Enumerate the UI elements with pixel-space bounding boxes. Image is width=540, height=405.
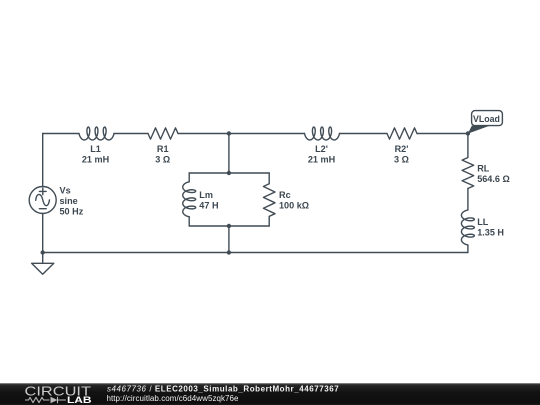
svg-text:564.6 Ω: 564.6 Ω bbox=[477, 174, 510, 184]
wire box top rail bbox=[189, 172, 269, 174]
wire top rail to source + bbox=[42, 134, 44, 187]
resistor R2' bbox=[387, 128, 417, 139]
svg-text:1.35 H: 1.35 H bbox=[477, 228, 504, 238]
label L1 name bbox=[90, 144, 101, 154]
label Lm name bbox=[199, 190, 213, 200]
logo CIRCUIT text bbox=[25, 383, 92, 398]
wire VLoad node to RL bbox=[467, 134, 469, 158]
wire node A down to box bbox=[228, 134, 230, 174]
ground symbol bbox=[32, 253, 54, 275]
svg-text:L2': L2' bbox=[315, 144, 328, 154]
bottom rail bbox=[43, 252, 468, 254]
source minus sign bbox=[39, 208, 46, 210]
svg-text:Lm: Lm bbox=[199, 190, 213, 200]
svg-text:LL: LL bbox=[477, 217, 489, 227]
resistor Rc bbox=[263, 184, 275, 217]
label R1 value bbox=[155, 155, 170, 165]
svg-text:100 kΩ: 100 kΩ bbox=[279, 201, 309, 211]
source plus sign bbox=[39, 188, 46, 195]
wire Lm bottom lead bbox=[188, 217, 190, 226]
resistor RL bbox=[462, 158, 474, 189]
resistor R1 bbox=[148, 128, 178, 139]
junction dot node VLoad bbox=[466, 131, 470, 135]
wire RL to LL bbox=[467, 189, 469, 211]
inductor LL bbox=[461, 210, 474, 245]
wire between L1 and R1 bbox=[114, 133, 148, 135]
junction dot at ground node bbox=[41, 250, 45, 254]
svg-text:LAB: LAB bbox=[67, 395, 92, 405]
label R2' value bbox=[394, 155, 409, 165]
label LL value bbox=[477, 228, 504, 238]
wire Lm top lead bbox=[188, 173, 190, 182]
svg-text:50 Hz: 50 Hz bbox=[60, 206, 84, 216]
label L2' value bbox=[308, 155, 335, 165]
logo diode symbol bbox=[51, 397, 67, 403]
wire Rc top lead bbox=[268, 173, 270, 184]
svg-text:R1: R1 bbox=[157, 144, 169, 154]
source Vs circle bbox=[29, 187, 56, 214]
wire source - to bottom rail bbox=[42, 214, 44, 253]
label Lm value bbox=[199, 201, 218, 211]
svg-text:sine: sine bbox=[60, 196, 78, 206]
wire box bottom rail bbox=[189, 225, 269, 227]
logo LAB text bbox=[67, 395, 92, 405]
junction dot box bottom bbox=[227, 224, 231, 228]
footer bar bbox=[0, 383, 540, 405]
svg-text:21 mH: 21 mH bbox=[308, 155, 335, 165]
label L1 value bbox=[82, 155, 109, 165]
svg-text:3 Ω: 3 Ω bbox=[155, 155, 170, 165]
wire box to bottom rail bbox=[228, 226, 230, 253]
junction dot box top bbox=[227, 171, 231, 175]
inductor L1 bbox=[79, 127, 114, 140]
label R1 name bbox=[157, 144, 169, 154]
label Rc value bbox=[279, 201, 309, 211]
VLoad flag text bbox=[473, 114, 500, 124]
footer line 2 bbox=[107, 394, 240, 403]
label L2' name bbox=[315, 144, 328, 154]
wire between L2' and R2' bbox=[340, 133, 388, 135]
label Vs type bbox=[60, 196, 78, 206]
svg-text:Vs: Vs bbox=[60, 185, 71, 195]
VLoad flag box bbox=[472, 111, 503, 126]
svg-text:VLoad: VLoad bbox=[473, 114, 500, 124]
svg-text:L1: L1 bbox=[90, 144, 101, 154]
svg-text:Rc: Rc bbox=[279, 190, 291, 200]
svg-text:21 mH: 21 mH bbox=[82, 155, 109, 165]
inductor Lm bbox=[183, 182, 196, 217]
svg-text:R2': R2' bbox=[395, 144, 409, 154]
label Rc name bbox=[279, 190, 291, 200]
inductor L2' bbox=[305, 127, 340, 140]
wire R2' to node VLoad bbox=[417, 133, 468, 135]
footer line 1 bbox=[107, 384, 339, 393]
label LL name bbox=[477, 217, 489, 227]
label Vs name bbox=[60, 185, 71, 195]
wire node A to L2' bbox=[229, 133, 305, 135]
source sine wave bbox=[36, 194, 50, 205]
wire top rail left segment bbox=[43, 133, 79, 135]
junction dot bottom rail bbox=[227, 250, 231, 254]
junction dot node A bbox=[227, 131, 231, 135]
label R2' name bbox=[395, 144, 409, 154]
label RL value bbox=[477, 174, 510, 184]
VLoad flag pointer bbox=[468, 126, 490, 134]
svg-text:RL: RL bbox=[477, 164, 490, 174]
logo circuit squiggle wire+resistor bbox=[25, 397, 50, 402]
svg-text:47 H: 47 H bbox=[199, 201, 218, 211]
wire LL to bottom rail bbox=[467, 245, 469, 253]
label RL name bbox=[477, 164, 490, 174]
svg-text:3 Ω: 3 Ω bbox=[394, 155, 409, 165]
wire Rc bottom lead bbox=[268, 216, 270, 226]
svg-text:s4467736 / ELEC2003_Simulab_Ro: s4467736 / ELEC2003_Simulab_RobertMohr_4… bbox=[107, 384, 339, 393]
label Vs value bbox=[60, 206, 84, 216]
svg-text:http://circuitlab.com/c6d4ww5z: http://circuitlab.com/c6d4ww5zqk76e bbox=[107, 394, 240, 403]
wire R1 to node A bbox=[178, 133, 229, 135]
